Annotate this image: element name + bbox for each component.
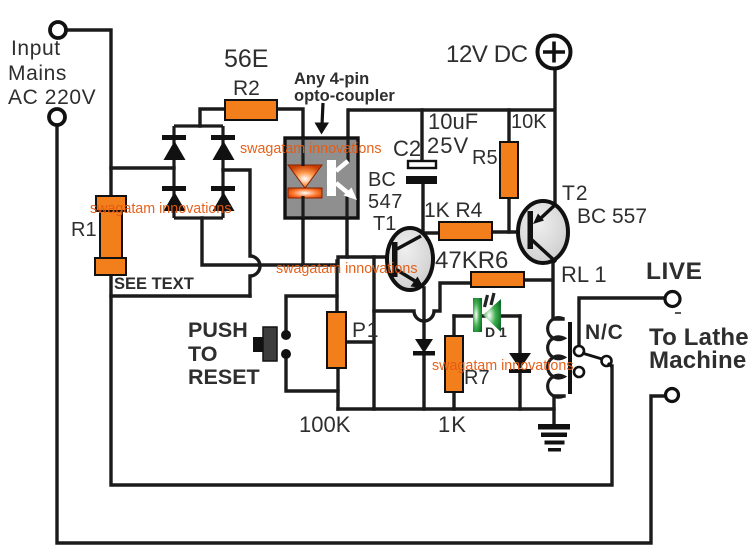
svg-text:1K R4: 1K R4: [424, 199, 483, 222]
svg-text:PUSH: PUSH: [188, 318, 248, 342]
svg-text:swagatam innovations: swagatam innovations: [240, 141, 381, 157]
svg-text:P1: P1: [352, 319, 379, 342]
svg-text:47KR6: 47KR6: [435, 247, 508, 274]
wire R4 to T2 base: [492, 230, 529, 233]
resistor R7: [445, 336, 463, 392]
svg-text:D 1: D 1: [485, 324, 507, 340]
wire LED rail: [454, 314, 520, 317]
wire opto pin LED anode: [277, 109, 303, 265]
svg-text:100K: 100K: [299, 412, 351, 437]
svg-text:R1: R1: [71, 219, 97, 241]
svg-text:N/C: N/C: [585, 321, 624, 344]
relay core bar: [568, 322, 572, 394]
resistor R6: [471, 272, 524, 287]
svg-text:R5: R5: [472, 147, 498, 169]
label BC 547 T1: [368, 169, 403, 235]
wire bottom ground rail: [338, 407, 554, 410]
svg-text:swagatam innovations: swagatam innovations: [276, 261, 417, 277]
wire flyback diode stubs: [518, 316, 521, 409]
mark dash: [675, 312, 681, 314]
opto transistor symbol: [332, 160, 349, 196]
terminal mains L1: [50, 22, 66, 38]
diode bridge D-LT: [162, 135, 186, 140]
transistor T2: [518, 201, 568, 263]
diode bridge D-LB: [162, 186, 186, 191]
wire R1 bottom node to hop vertical: [111, 294, 250, 297]
wire R1 bottom down to relay common: [111, 275, 612, 485]
diode bridge D-RT: [211, 135, 235, 140]
svg-text:SEE TEXT: SEE TEXT: [114, 275, 194, 293]
wire relay bottom to ground: [554, 396, 564, 424]
wire R7 stubs: [452, 316, 455, 409]
svg-text:547: 547: [368, 191, 403, 213]
opto LED symbol: [288, 165, 322, 188]
wire R5 stubs: [507, 110, 510, 232]
terminal lathe neutral: [666, 389, 679, 402]
relay contacts: [574, 346, 612, 377]
wire mains L1 to R1 top: [66, 30, 111, 194]
wire C2 stubs: [422, 110, 440, 234]
svg-text:RESET: RESET: [188, 365, 260, 389]
wire P1 wiper vertical: [347, 257, 374, 409]
wire push button top: [286, 296, 337, 329]
svg-text:10K: 10K: [511, 111, 547, 133]
svg-text:10uF: 10uF: [428, 109, 478, 134]
relay armature: [582, 353, 602, 359]
resistor R5: [500, 142, 518, 198]
svg-text:BC 557: BC 557: [577, 205, 647, 228]
ground: [538, 424, 570, 452]
wire top 12V rail: [349, 69, 555, 205]
resistor R2: [225, 100, 277, 120]
annotation arrow: [322, 103, 323, 125]
wire opto pin collector to top rail: [346, 110, 349, 165]
resistor R4: [439, 222, 492, 240]
capacitor C2: [408, 161, 436, 168]
diode bridge D-RB: [211, 186, 235, 191]
svg-text:12V DC: 12V DC: [446, 41, 528, 68]
svg-text:RL 1: RL 1: [561, 262, 607, 287]
LED1: [473, 293, 501, 332]
terminal LIVE: [665, 292, 680, 307]
svg-text:R2: R2: [233, 77, 260, 100]
push button: [253, 327, 291, 361]
wire AC tap left to bridge: [111, 166, 174, 169]
svg-text:LIVE: LIVE: [646, 258, 702, 285]
diode D2 flyback: [509, 353, 531, 373]
svg-text:BC: BC: [368, 169, 396, 191]
wire mains L2 neutral to lathe terminal: [57, 125, 664, 543]
wire R6 left leg with hop over T1 emitter: [374, 283, 471, 321]
label any 4-pin opto-coupler: [294, 70, 395, 105]
label input mains: [8, 37, 96, 109]
transistor T1: [387, 228, 433, 290]
svg-text:TO: TO: [188, 342, 217, 366]
wire P1 stubs: [337, 261, 338, 409]
wire bridge negative tap to base rail: [202, 218, 392, 265]
svg-text:swagatam innovations: swagatam innovations: [432, 358, 573, 374]
relay RL1 coil: [548, 318, 564, 398]
potentiometer P1: [327, 312, 346, 368]
svg-text:C2: C2: [393, 136, 421, 161]
svg-text:T1: T1: [373, 213, 396, 235]
svg-text:1K: 1K: [438, 412, 467, 437]
label To Lathe Machine: [649, 324, 749, 374]
svg-text:Input: Input: [11, 37, 61, 60]
diode D1 under T1: [413, 339, 435, 356]
terminal mains L2: [49, 109, 65, 125]
svg-text:AC 220V: AC 220V: [8, 86, 96, 109]
wire bridge top tap to R2: [200, 109, 225, 126]
bridge rectifier: [174, 126, 223, 218]
label PUSH TO RESET: [188, 318, 260, 389]
wire R6 right to T2 collector and relay: [524, 263, 563, 319]
svg-text:Any 4-pin: Any 4-pin: [294, 70, 369, 88]
opto pin segments inside box: [303, 138, 348, 218]
svg-text:swagatam innovations: swagatam innovations: [90, 201, 231, 217]
wire T1 emitter through diode D1: [422, 288, 425, 409]
wire opto pin emitter to base rail: [345, 193, 348, 257]
wire relay NC contact to LIVE: [579, 298, 665, 346]
svg-text:T2: T2: [562, 182, 589, 205]
svg-text:25V: 25V: [427, 133, 469, 158]
wire push button bottom: [286, 360, 338, 391]
svg-text:Mains: Mains: [8, 62, 67, 85]
wire bridge right AC tap with hop over rail: [223, 170, 260, 296]
resistor R1: [95, 196, 126, 275]
svg-text:opto-coupler: opto-coupler: [294, 87, 395, 105]
svg-text:56E: 56E: [224, 45, 268, 73]
opto-coupler U1: [285, 138, 358, 218]
svg-text:Machine: Machine: [649, 347, 746, 374]
terminal 12V DC: [538, 36, 571, 69]
